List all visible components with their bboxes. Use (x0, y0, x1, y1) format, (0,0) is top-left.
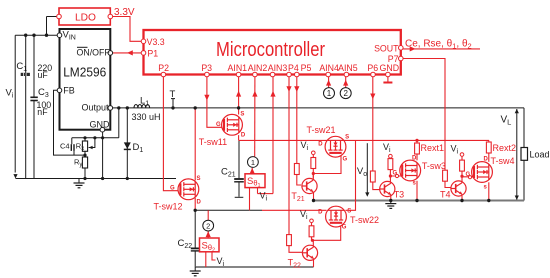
svg-text:P2: P2 (158, 63, 169, 73)
svg-text:AIN3: AIN3 (268, 63, 288, 73)
svg-text:G: G (216, 122, 221, 128)
svg-text:nF: nF (37, 107, 48, 117)
svg-text:Rext1: Rext1 (421, 143, 445, 153)
svg-text:T-sw21: T-sw21 (307, 125, 336, 135)
svg-text:LM2596: LM2596 (63, 65, 106, 80)
svg-text:2: 2 (206, 221, 210, 230)
svg-text:T-sw11: T-sw11 (199, 137, 227, 147)
svg-text:GND: GND (380, 63, 400, 73)
svg-text:Load: Load (530, 150, 550, 160)
svg-text:P7: P7 (388, 54, 399, 64)
svg-text:V3.3: V3.3 (147, 37, 165, 47)
svg-text:1: 1 (327, 89, 332, 98)
svg-text:S: S (347, 209, 351, 215)
svg-text:T4: T4 (440, 190, 451, 200)
svg-text:P6: P6 (367, 63, 378, 73)
svg-text:Ce, Rse, θ1, θ2: Ce, Rse, θ1, θ2 (405, 39, 472, 51)
svg-text:D: D (484, 157, 489, 163)
svg-text:G: G (393, 171, 398, 177)
svg-text:T-sw3: T-sw3 (422, 161, 446, 171)
svg-text:P4: P4 (288, 63, 299, 73)
svg-text:G: G (170, 186, 175, 192)
svg-text:AIN2: AIN2 (248, 63, 268, 73)
svg-text:D: D (412, 156, 417, 162)
svg-text:AIN1: AIN1 (228, 63, 248, 73)
svg-text:D: D (241, 133, 246, 139)
svg-text:D: D (318, 141, 323, 147)
svg-text:D: D (318, 210, 323, 216)
svg-text:S: S (345, 135, 349, 141)
svg-text:T-sw4: T-sw4 (491, 156, 515, 166)
svg-text:T-sw22: T-sw22 (350, 215, 379, 225)
svg-text:D: D (197, 200, 202, 206)
svg-text:AIN4: AIN4 (319, 63, 339, 73)
svg-text:3.3V: 3.3V (114, 7, 135, 18)
svg-text:LDO: LDO (75, 12, 96, 23)
svg-text:Rext2: Rext2 (493, 143, 517, 153)
svg-text:T: T (170, 89, 176, 100)
svg-text:SOUT: SOUT (374, 44, 399, 54)
svg-text:C4: C4 (60, 141, 70, 150)
svg-text:G: G (466, 172, 471, 178)
svg-text:GND: GND (90, 119, 111, 129)
svg-text:S: S (197, 176, 201, 182)
svg-text:P3: P3 (201, 63, 212, 73)
svg-text:G: G (343, 156, 348, 162)
svg-text:G: G (342, 225, 347, 231)
svg-text:P1: P1 (147, 49, 158, 59)
svg-text:AIN5: AIN5 (338, 63, 358, 73)
svg-text:P5: P5 (301, 63, 312, 73)
svg-text:FB: FB (63, 86, 75, 96)
svg-text:2: 2 (343, 89, 348, 98)
svg-text:uF: uF (38, 70, 49, 80)
svg-text:ON/OFF: ON/OFF (77, 48, 111, 58)
svg-text:S: S (240, 112, 244, 118)
svg-text:T3: T3 (394, 190, 405, 200)
svg-text:Output: Output (82, 103, 110, 113)
svg-text:Microcontroller: Microcontroller (216, 39, 325, 61)
svg-text:1: 1 (251, 158, 255, 167)
svg-text:330 uH: 330 uH (132, 112, 161, 122)
svg-text:T-sw12: T-sw12 (154, 202, 183, 212)
